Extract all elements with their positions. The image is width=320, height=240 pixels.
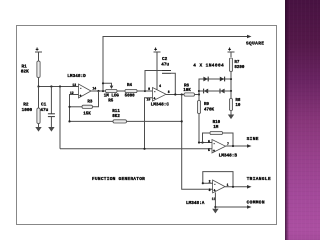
wire into C inverting input [145, 90, 153, 92]
wire R11 hysteresis line [70, 120, 182, 122]
svg-text:1M: 1M [213, 126, 219, 130]
resistor R7 8200 [229, 58, 245, 79]
node diode left top [198, 90, 200, 92]
wire square tap up and across [103, 37, 248, 92]
capacitor C1 [40, 87, 55, 128]
wire diode branch verticals [199, 79, 231, 91]
svg-text:1000: 1000 [22, 108, 33, 113]
resistor R6 10K [183, 84, 194, 96]
svg-text:+: + [154, 47, 157, 53]
diode D2 (top row, right-pointing) [220, 77, 225, 82]
resistor R1 [21, 58, 40, 87]
svg-text:1M LOG: 1M LOG [104, 95, 120, 99]
wire C + input drop to B+ line [145, 98, 153, 149]
node dot reference tap [59, 85, 61, 87]
node R3 left junction [68, 106, 70, 108]
node R11 left junction [68, 120, 70, 122]
svg-text:R9: R9 [204, 103, 210, 107]
node COMMON ground junction [214, 206, 216, 208]
svg-text:COMMON: COMMON [247, 199, 265, 205]
wire B- line from R9 [199, 142, 212, 144]
wire reference drop to B+ line [59, 87, 61, 149]
svg-text:8: 8 [168, 90, 170, 94]
ground (R2) [35, 127, 41, 132]
ground (R8) [228, 115, 234, 120]
node R3 feedback tap [97, 90, 99, 92]
svg-text:TRIANGLE: TRIANGLE [247, 176, 271, 182]
svg-text:R4: R4 [127, 84, 133, 88]
resistor R3 15K feedback [70, 91, 99, 116]
svg-text:LM348:C: LM348:C [151, 103, 170, 108]
node R10 right junction [232, 145, 234, 147]
svg-text:9: 9 [148, 87, 150, 91]
+V supply symbol (R7 top) [228, 52, 235, 57]
node R10 left junction [201, 141, 203, 143]
wire bottom diode row (main line) [199, 90, 231, 92]
svg-text:7: 7 [227, 142, 229, 146]
sine arrowhead [247, 144, 252, 148]
diode D3 (bottom row, left-pointing) [204, 89, 209, 94]
node square tap [102, 90, 104, 92]
resistor R10 1M feedback [203, 121, 234, 146]
wire A output [225, 186, 248, 188]
svg-text:4: 4 [159, 84, 161, 88]
resistor R2 [22, 87, 41, 128]
svg-text:82K: 82K [21, 70, 29, 75]
wire D + input drop to R3/R11 [70, 95, 79, 122]
svg-text:5: 5 [208, 148, 210, 152]
svg-text:470K: 470K [204, 108, 215, 112]
svg-text:+: + [36, 47, 39, 53]
svg-text:47u: 47u [40, 108, 48, 113]
node triangle tap [181, 93, 183, 95]
wire C output main line right [166, 91, 199, 95]
op-amp LM348:C integrator [147, 84, 170, 108]
wire COMMON line [215, 206, 248, 208]
+V supply symbol (top of R1) [35, 52, 42, 58]
svg-text:5600: 5600 [125, 95, 136, 99]
node R9 bottom junction [198, 141, 200, 143]
node dot C1 tap [50, 85, 52, 87]
purple sidebar [285, 0, 320, 240]
capacitor C2 (integrator) [145, 57, 175, 94]
svg-text:R11: R11 [112, 110, 120, 114]
wire triangle signal down to A [182, 95, 213, 190]
svg-text:R5: R5 [108, 100, 114, 104]
resistor R11 8K2 [112, 110, 126, 123]
ground (C1) [48, 127, 54, 132]
svg-text:8K2: 8K2 [112, 115, 120, 119]
svg-text:SQUARE: SQUARE [246, 40, 264, 46]
svg-text:13: 13 [72, 83, 76, 87]
svg-text:LM348:B: LM348:B [219, 153, 238, 158]
svg-text:6: 6 [208, 139, 210, 143]
node reference line junction [143, 148, 145, 150]
svg-text:10: 10 [235, 104, 241, 108]
wire A power pin 11 down [214, 192, 216, 208]
svg-text:R6: R6 [184, 84, 190, 88]
potentiometer R5 1M LOG [102, 82, 119, 103]
node dot R1/R2 [37, 85, 39, 87]
svg-text:47u: 47u [161, 63, 169, 68]
op-amp LM348:A [186, 180, 229, 207]
ground (A pin 11) [212, 209, 218, 214]
+V supply symbol (op-amp C pin 4) [154, 52, 161, 56]
node R11 right junction [181, 120, 183, 122]
node diode right bottom [230, 90, 232, 92]
square arrowhead [247, 35, 252, 39]
svg-text:R7: R7 [234, 61, 240, 65]
svg-text:R10: R10 [213, 121, 221, 125]
svg-text:4 X 1N4004: 4 X 1N4004 [193, 62, 224, 68]
node A inverting input junction [202, 182, 204, 184]
node C2 feedback junction [174, 93, 176, 95]
wire D output / main line [91, 90, 145, 92]
wire node line to op-amp D inverting input [39, 86, 79, 88]
svg-text:14: 14 [92, 87, 96, 91]
op-amp LM348:D [67, 74, 96, 99]
svg-text:8200: 8200 [234, 66, 245, 70]
svg-text:-: - [154, 91, 156, 95]
svg-text:FUNCTION GENERATOR: FUNCTION GENERATOR [92, 176, 145, 182]
svg-text:R3: R3 [87, 101, 93, 105]
common arrowhead [247, 205, 252, 209]
resistor R4 5600 [125, 84, 137, 99]
wire A feedback loop [203, 172, 233, 187]
diode D4 (bottom row, left-pointing) [220, 89, 225, 94]
node C2 tap [144, 90, 146, 92]
svg-text:3: 3 [209, 188, 211, 192]
svg-text:10K: 10K [183, 89, 191, 93]
triangle arrowhead [247, 185, 252, 189]
svg-text:SINE: SINE [247, 136, 259, 142]
node diode right top [230, 78, 232, 80]
node diode left bottom [198, 93, 200, 95]
node A feedback junction [232, 186, 234, 188]
resistor R9 470K [197, 95, 214, 143]
resistor R8 10 [229, 91, 241, 115]
svg-text:LM348:D: LM348:D [67, 74, 86, 79]
wire C power pin [156, 56, 158, 90]
wire B output [226, 145, 249, 147]
wire B+ reference line [60, 148, 212, 150]
svg-text:-: - [80, 87, 82, 91]
svg-text:15K: 15K [83, 112, 91, 116]
svg-text:-: - [214, 183, 216, 187]
svg-text:+: + [228, 47, 231, 53]
op-amp LM348:B [208, 139, 237, 158]
svg-text:R8: R8 [235, 99, 241, 103]
svg-text:-: - [213, 143, 215, 147]
diode D1 (top row, right-pointing) [203, 77, 208, 82]
schematic frame [17, 26, 277, 225]
svg-text:C2: C2 [162, 57, 168, 62]
svg-text:2: 2 [209, 180, 211, 184]
svg-text:R1: R1 [22, 64, 28, 69]
svg-text:LM348:A: LM348:A [186, 201, 205, 206]
